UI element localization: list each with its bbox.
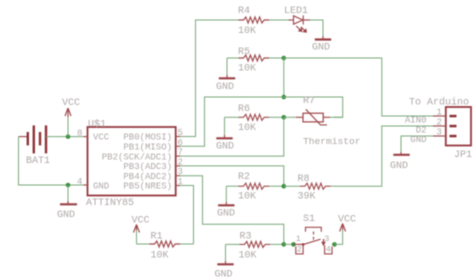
svg-text:GND: GND (312, 43, 330, 54)
connector JP1 (405, 97, 472, 162)
wire PB5 pin1 to R1 (180, 186, 194, 245)
svg-text:4: 4 (326, 245, 331, 255)
VCC symbol at battery (62, 98, 80, 137)
svg-text:GND: GND (217, 209, 235, 220)
LED LED1 (284, 6, 310, 32)
svg-text:1: 1 (296, 234, 301, 244)
svg-text:GND: GND (216, 82, 234, 93)
svg-text:PB4(ADC2): PB4(ADC2) (123, 172, 172, 182)
actuator bracket (306, 227, 322, 232)
svg-text:PB0(MOSI): PB0(MOSI) (123, 133, 172, 143)
svg-text:R7: R7 (303, 96, 315, 107)
pin 8 VCC left (84, 136, 88, 138)
svg-text:GND: GND (216, 142, 234, 153)
wire PB2 pin7 to thermistor node (180, 117, 284, 156)
svg-text:10K: 10K (239, 251, 257, 262)
junction R2/R8 node (282, 184, 287, 189)
resistor R3 (226, 232, 284, 262)
svg-text:JP1: JP1 (454, 150, 472, 161)
VCC symbol at S1 (338, 215, 356, 232)
wire battery plus to IC pin8 (46, 136, 84, 138)
battery BAT1 (19, 125, 51, 167)
dashed link (313, 232, 315, 240)
IC U$1 ATTINY85 (77, 119, 183, 210)
svg-text:Thermistor: Thermistor (303, 136, 361, 147)
svg-text:BAT1: BAT1 (26, 156, 50, 167)
resistor R1 (137, 232, 194, 262)
thermistor R7 (284, 96, 361, 147)
resistor R5 (227, 47, 284, 75)
contact arrow (322, 239, 325, 245)
svg-text:D2: D2 (416, 126, 427, 136)
svg-text:PB1(MISO): PB1(MISO) (123, 143, 172, 153)
lever (303, 239, 321, 244)
junction VCC node at battery (66, 134, 71, 139)
svg-text:PB3(ADC3): PB3(ADC3) (123, 162, 172, 172)
svg-text:R6: R6 (238, 104, 250, 115)
junction S1 pin3 (332, 242, 337, 247)
svg-text:1: 1 (437, 108, 442, 118)
svg-text:10K: 10K (238, 64, 256, 75)
svg-text:R2: R2 (238, 172, 250, 183)
bracket pins 1-2 (296, 246, 303, 254)
junction S1 pin1 (291, 242, 296, 247)
svg-text:R4: R4 (238, 6, 250, 17)
resistor R6 (225, 104, 284, 134)
pin 3 stub (332, 243, 335, 245)
wire node to AIN0 column (284, 58, 433, 116)
junction GND node at battery (66, 183, 71, 188)
svg-text:R5: R5 (238, 47, 250, 58)
svg-text:10K: 10K (238, 123, 256, 134)
svg-text:3: 3 (437, 128, 442, 138)
wire node down to PB1 row (283, 58, 285, 97)
VCC symbol at R1 (132, 216, 150, 245)
svg-text:VCC: VCC (338, 215, 356, 226)
junction R6/thermistor node (282, 115, 287, 120)
wire PB4 pin3 to switch node (180, 176, 284, 245)
junction PB1 node (282, 95, 287, 100)
wire JP1 GND pin to ground (401, 136, 433, 152)
svg-text:GND: GND (390, 161, 408, 172)
svg-text:U$1: U$1 (88, 119, 106, 131)
svg-text:10K: 10K (238, 26, 256, 37)
ground at battery (57, 185, 77, 221)
svg-text:S1: S1 (303, 214, 315, 225)
switch S1 (294, 214, 335, 255)
ground at R5 (216, 58, 235, 93)
svg-text:R3: R3 (240, 232, 252, 243)
resistor R8 (284, 174, 338, 203)
svg-text:VCC: VCC (93, 133, 110, 143)
svg-text:10K: 10K (151, 251, 169, 262)
ground at R3 (215, 244, 234, 278)
wire PB3 pin2 down to R2/R8 node (180, 166, 284, 186)
wire LED cathode to ground (310, 20, 323, 36)
svg-text:VCC: VCC (62, 98, 80, 109)
pin 4 GND left (84, 184, 88, 186)
resistor R4 (231, 6, 289, 37)
svg-text:VCC: VCC (132, 216, 150, 227)
svg-text:GND: GND (57, 210, 75, 221)
svg-text:2: 2 (297, 245, 302, 255)
ground at R6 (216, 117, 234, 152)
svg-text:39K: 39K (298, 192, 316, 203)
svg-text:LED1: LED1 (284, 6, 308, 17)
svg-text:2: 2 (437, 118, 442, 128)
svg-text:GND: GND (215, 270, 233, 278)
svg-text:GND: GND (93, 182, 109, 192)
svg-text:10K: 10K (238, 192, 256, 203)
svg-text:PB5(NRES): PB5(NRES) (123, 182, 172, 192)
wire PB0 to R4 (180, 20, 231, 137)
ground at JP1 (390, 152, 410, 172)
ground at LED1 (312, 36, 331, 54)
pin1 stub (294, 243, 304, 245)
svg-text:8: 8 (77, 129, 82, 139)
wire S1 to VCC (335, 230, 343, 244)
wire R8 to D2 (338, 126, 433, 186)
wire node to S1 pin1 (284, 243, 294, 245)
right pin stubs (176, 136, 180, 138)
junction R3/PB4/S1 node (282, 242, 287, 247)
junction R5 right node (282, 56, 287, 61)
pin 1 (433, 115, 446, 117)
svg-text:GND: GND (410, 135, 426, 145)
wire battery minus down and to IC pin4 (19, 137, 84, 185)
svg-text:PB2(SCK/ADC1): PB2(SCK/ADC1) (102, 152, 172, 162)
svg-text:3: 3 (324, 234, 329, 244)
pin 3 (433, 135, 446, 137)
svg-text:AIN0: AIN0 (405, 116, 427, 126)
wire PB1 pin6 up to node (180, 97, 284, 146)
pin 2 (433, 125, 446, 127)
svg-text:ATTINY85: ATTINY85 (86, 198, 134, 209)
wire node to thermistor right (284, 97, 343, 117)
bracket pins 3-4 (325, 246, 332, 254)
ground at R2 (217, 186, 235, 219)
svg-text:4: 4 (77, 177, 82, 187)
resistor R2 (226, 172, 283, 203)
